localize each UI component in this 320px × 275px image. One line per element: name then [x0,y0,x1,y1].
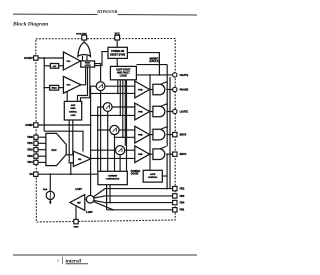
wire: gate2 output to DRIVE2 pin [166,111,172,113]
wire: inhibit tap gate2 [158,104,167,108]
wire: inhibit tap gate1 [158,82,167,86]
pin FB2 [173,186,177,190]
svg-text:1.26V: 1.26V [86,211,93,214]
svg-text:SS: SS [29,173,33,176]
wire: SS pin horizontal [38,173,98,175]
wire: fan to FB2 pin [93,189,172,197]
wire: bus line 3 drop [122,80,124,138]
junction EA feedback [70,173,72,175]
wire: VID pin stub 2 [38,149,46,151]
footer divider bar [61,257,64,264]
wire: error amp output [91,157,135,159]
svg-text:VCC: VCC [115,32,120,35]
wire: sawtooth C4 to PWM4 [125,149,135,151]
pin COMP [173,208,177,212]
wire: 10uA source ground stub [49,200,51,202]
wire: POR right rail [127,53,159,75]
wire: sawtooth C1 left stub [91,85,97,87]
sawtooth source C3 [110,125,119,134]
svg-text:OC2: OC2 [67,85,71,87]
or-gate U1 fault OR [78,42,91,56]
pin VID1 [34,141,38,145]
wire: soft-start to UGATE pin [136,74,172,76]
wire: branch to threshold box1 [44,65,50,67]
wire: VID pin stub 4 [38,161,46,163]
wire: comp line horizontal [107,209,173,211]
wire: box1 to OC1 inverting input [59,65,64,67]
junction inhibit tap1 [166,81,168,83]
svg-text:PWM: PWM [138,154,143,156]
wire: inhibit tap gate4 [158,146,167,150]
pin FAULT/RT [82,35,87,40]
svg-text:FAULT/RT: FAULT/RT [76,32,87,35]
svg-text:PWM: PWM [138,111,143,113]
svg-text:LOGIC: LOGIC [120,75,128,77]
wire: fan to COMP pin [93,201,113,210]
wire: OCSET pin to OC1 comparator [38,57,63,59]
pin FB4 [173,200,177,204]
svg-text:CONTROL: CONTROL [69,112,77,114]
wire: PWM1 output to gate1 [150,89,153,91]
wire: error amp rail to PWM2 [91,114,135,116]
wire: PWM3 output to gate3 [150,134,153,136]
svg-text:FB1: FB1 [180,209,185,212]
wire: FB pin horizontal [38,124,91,126]
svg-text:CURRENT: CURRENT [108,176,118,178]
wire: bus line 1 drop [117,80,119,94]
junction FB rail [90,124,92,126]
summing node [86,195,94,203]
svg-text:UGATE: UGATE [180,74,189,77]
wire: feedback rail vertical [90,86,92,195]
svg-text:DRIVE: DRIVE [71,108,76,110]
wire: gate control right stub [162,175,167,177]
pwm comparator PWM2 [135,103,150,120]
pin GND [74,219,78,223]
junction C2 stub [107,115,109,117]
wire: latch riser to OR gate input a [82,56,84,61]
wire: sawtooth C1 to PWM1 [105,85,135,87]
svg-text:LOGIC: LOGIC [70,115,76,117]
box threshold 4.1V [50,64,58,69]
wire: gate logic riser left [66,92,68,102]
junction C3 stub [114,137,116,139]
svg-text:VID1: VID1 [27,142,33,145]
wire: gate drive return rail [169,77,171,189]
svg-text:GOOD: GOOD [131,173,139,176]
junction bus line2 [120,115,122,117]
wire: gate logic bottom drop [72,120,74,155]
wire: PWM4 output to gate4 [150,153,153,155]
wire: VID pin stub 0 [38,136,46,138]
wire: fan to FB3 pin [94,196,173,198]
wire: VCC pin to POR box [116,40,118,48]
svg-text:OC1: OC1 [67,61,71,63]
dac D/A converter [46,133,66,165]
wire: inhibit tap gate3 [158,127,167,131]
svg-text:VID2: VID2 [27,149,33,152]
wire: gate logic riser right bend [78,67,88,101]
pin UGATE [173,73,177,77]
svg-text:GATE: GATE [150,173,156,176]
box gate control [143,170,162,182]
pwm comparator PWM4 [135,146,150,163]
box fault latch [81,61,95,67]
wire: POR bottom to soft-start logic box [116,58,118,66]
wire: branch to error amp [44,131,83,151]
svg-text:VID3: VID3 [27,155,33,158]
header rule [13,13,197,16]
svg-text:FB3: FB3 [180,195,185,198]
pin SS [34,172,38,176]
svg-text:CONTROL: CONTROL [148,177,158,179]
wire: gate3 output to DRIVE3 pin [166,134,172,136]
junction bus3 [122,137,124,139]
junction bus1 on pwm1 input [117,93,119,95]
wire: sawtooth C3 left rail [98,129,110,131]
svg-text:FB4: FB4 [180,202,185,205]
wire: sawtooth C2 feedback drop [107,111,109,171]
sawtooth glyph C1 [99,84,103,88]
box threshold 200uA [50,85,59,90]
junction error amp rail [90,115,92,117]
reference amp [70,195,85,211]
sawtooth source C4 [116,146,125,155]
pin VID0 [34,135,38,139]
wire: sawtooth C4 left stub [91,149,116,151]
wire: bus line 4 [124,80,126,146]
pwm comparator PWM3 [135,126,150,143]
wire: OC1 output to fault latch [79,60,81,62]
wire: SS branch to 10uA source [49,174,51,191]
sawtooth glyph C3 [113,128,117,132]
wire: reference amp ground to GND pin [75,206,77,220]
junction drop on FB2 line [166,188,168,190]
junction fan FB4 [109,202,111,204]
svg-text:DAC: DAC [52,149,57,152]
sawtooth glyph C2 [106,105,110,109]
wire: gate4 output to DRIVE4 pin [166,153,172,155]
svg-text:DRV3: DRV3 [180,134,187,137]
wire: OC2 output riser to fault latch [81,67,86,85]
and-gate G1 [153,84,165,95]
wire: bus line 5 to current comparator [126,80,128,172]
svg-text:OCSET: OCSET [24,57,33,60]
wire: reference amp to summing node [85,198,87,200]
junction C3 rail [97,129,99,131]
svg-text:(FAULT): (FAULT) [150,60,160,63]
wire: PWM2 output to gate2 [150,111,153,113]
junction inhibit tap2 [166,103,168,105]
wire: box2 to OC2 inverting input [59,87,64,89]
pin FB [34,123,38,127]
wire: FAULT/RT pin to OR gate output [83,40,85,43]
wire: VID pin stub 1 [38,142,46,144]
footer rule [13,255,197,256]
wire: latch riser to OR gate input b [86,56,88,61]
svg-text:VID4: VID4 [27,161,33,164]
svg-text:AND FAULT: AND FAULT [117,71,130,74]
wire: sawtooth C3 to PWM3 [119,129,135,131]
comparator OC1 [63,52,80,70]
box soft-start and fault logic [110,66,136,79]
junction gate4 drop [166,153,168,155]
wire: branch to threshold box2 [44,87,49,89]
svg-text:COMP: COMP [25,124,33,127]
wire: gate logic drop [166,154,168,188]
pin LGATE [173,109,177,113]
svg-text:1.26V: 1.26V [75,188,82,191]
wire: PWM3 lower input [115,136,135,138]
pin VCC [115,35,120,40]
wire: sawtooth C3 feedback drop [114,135,116,172]
footer logo underline [66,262,89,265]
current source arrow [49,202,52,205]
wire: POR to FAULT latch [95,52,108,66]
current source 10uA [46,191,54,199]
wire: sawtooth C2 left rail [98,107,104,171]
svg-text:PWM: PWM [138,134,143,136]
svg-text:Block Diagram: Block Diagram [12,21,49,27]
svg-text:RESET (POR): RESET (POR) [110,55,125,57]
sawtooth source C1 [96,82,105,91]
and-gate G4 [153,149,165,160]
junction at box2 branch [43,87,45,89]
wire: DAC output to error amp [66,154,73,156]
pin VID2 [34,148,38,152]
wire: gate logic bottom drop 2 [69,120,73,163]
svg-text:HIP6019B: HIP6019B [96,9,117,14]
pin OCSET [34,56,38,60]
junction on soft-start line [149,74,151,76]
wire: bus line 2 [119,80,121,116]
box gate logic [64,101,81,120]
pin PHASE [173,87,177,91]
svg-text:SOFT-START: SOFT-START [116,69,131,72]
svg-text:PWM: PWM [138,89,143,91]
junction at OCSET branch [43,57,45,59]
sawtooth source C2 [103,103,112,112]
pwm comparator PWM1 [135,81,150,98]
box current comparator [98,171,127,184]
svg-text:COMPARATOR: COMPARATOR [106,178,120,181]
junction SS source branch [49,173,51,175]
wire: current comparator leg to comp line [106,185,108,210]
svg-text:2: 2 [57,259,59,263]
svg-text:200µA: 200µA [52,87,58,90]
comparator OC2 [63,76,81,93]
wire: sawtooth C1 feedback drop [100,91,102,172]
pin VID4 [34,160,38,164]
box POR power-on reset [108,47,127,58]
svg-text:POWER-ON: POWER-ON [111,51,124,53]
svg-text:DRV4: DRV4 [180,153,187,156]
IC boundary dashed box [36,39,175,223]
svg-text:VID0: VID0 [27,136,33,139]
sawtooth glyph C4 [118,148,122,152]
svg-text:GND: GND [74,227,79,229]
svg-text:10µA: 10µA [43,188,48,191]
wire: gate1 output to LGATE pin [166,89,172,91]
wire: VID pin stub 3 [38,155,46,157]
wire: current comparator leg to fb4 line [109,185,111,203]
svg-text:LATCH: LATCH [85,64,91,67]
junction inhibit tap3 [166,126,168,128]
wire: error amp inverting input [71,163,74,174]
junction on POR rail [159,74,161,76]
wire: fan to FB4 pin [94,200,173,202]
wire: phase feedback rail [149,75,151,170]
wire: gate logic riser outer bend [81,67,90,101]
wire: PWM1 lower input [90,92,135,94]
wire: sawtooth C4 to current comparator [119,155,121,172]
error amp EA1 [73,151,91,166]
wire: sawtooth C2 to PWM2 [112,106,135,108]
wire: OCSET vertical branch [43,58,45,131]
and-gate G2 [153,106,165,117]
junction C1 stub [100,93,102,95]
pin VID3 [34,154,38,158]
svg-text:LGATE: LGATE [180,110,189,113]
pin DRIVE3 [173,132,177,136]
wire: inhibit rail vertical [166,65,168,147]
svg-text:FB2: FB2 [180,188,185,191]
pin DRIVE4 [173,152,177,156]
pin FB3 [173,194,177,198]
wire: latch to sawtooth rail [95,64,101,82]
and-gate G3 [153,129,165,140]
junction comp line [112,209,114,211]
wire: inhibit rail horizontal [136,64,167,66]
current source glyph [49,192,52,199]
svg-text:PHASE: PHASE [180,88,189,91]
